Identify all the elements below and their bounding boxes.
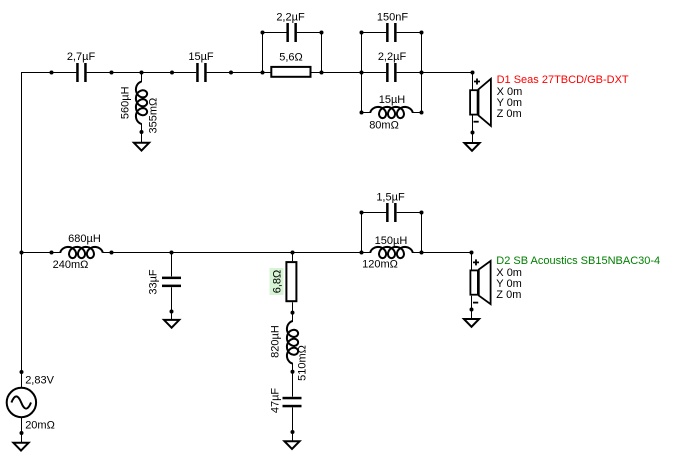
wire group2 left riser [361, 33, 363, 113]
svg-text:355mΩ: 355mΩ [148, 98, 160, 134]
node n21 [110, 251, 114, 255]
resistor R11 6,8Ω [270, 262, 297, 301]
svg-text:47µF: 47µF [270, 388, 282, 414]
wire group3 left riser [361, 213, 363, 253]
node n25 [420, 251, 424, 255]
node n27 [360, 211, 364, 215]
svg-text:D1 Seas 27TBCD/GB-DXT: D1 Seas 27TBCD/GB-DXT [497, 74, 629, 86]
wire group2 top branch right [397, 32, 422, 34]
node n28 [420, 211, 424, 215]
inductor L8 15µH [369, 94, 413, 132]
wire woofer drop top [471, 253, 473, 270]
svg-text:Z 0m: Z 0m [496, 289, 521, 301]
svg-text:2,2µF: 2,2µF [276, 12, 305, 24]
wire group1 top branch left [262, 32, 287, 34]
wire group2 right riser [421, 33, 423, 113]
node n15 [360, 111, 364, 115]
node n13 [360, 31, 364, 35]
svg-text:15µF: 15µF [188, 51, 214, 63]
wire 47uF to ground [292, 407, 294, 441]
svg-text:5,6Ω: 5,6Ω [279, 52, 303, 64]
node n20 [50, 251, 54, 255]
node n30 [291, 311, 295, 315]
capacitor C6 150nF [377, 12, 408, 43]
svg-text:510mΩ: 510mΩ [296, 345, 308, 381]
capacitor C14 1,5µF [376, 192, 405, 223]
wire group2 bottom branch left [361, 112, 371, 114]
capacitor C3 15µF [188, 51, 214, 82]
svg-text:240mΩ: 240mΩ [53, 259, 89, 271]
node n31 [291, 370, 295, 374]
node n32 [291, 430, 295, 434]
wire source bottom lead [21, 417, 23, 443]
svg-text:15µH: 15µH [379, 94, 406, 106]
inductor L12 820µH [270, 321, 309, 381]
svg-text:1,5µF: 1,5µF [376, 192, 405, 204]
svg-text:80mΩ: 80mΩ [369, 120, 399, 132]
wire Rpad chain top [292, 253, 294, 262]
wire group1 right riser [321, 33, 323, 73]
capacitor C13 47µF [270, 388, 302, 414]
label D2 SB Acoustics SB15NBAC30-4 [496, 255, 660, 301]
wire group1 left riser [262, 33, 264, 73]
speaker D2 woofer [470, 259, 490, 304]
node n18 [471, 131, 475, 135]
node n33 [470, 308, 474, 312]
wire bottom net segment B [102, 252, 371, 254]
ground G5 (47µF branch) [284, 441, 299, 449]
wire Rpad to coil [292, 302, 294, 322]
svg-text:120mΩ: 120mΩ [362, 259, 398, 271]
node n10 [471, 71, 475, 75]
label D1 Seas 27TBCD/GB-DXT [497, 74, 629, 120]
inductor L2 560µH [120, 82, 160, 134]
node n5 [229, 71, 233, 75]
wire 33uF branch bottom [171, 287, 173, 320]
svg-text:560µH: 560µH [120, 86, 132, 119]
node n22 [170, 251, 174, 255]
node n26 [470, 251, 474, 255]
wire tweeter drop bottom [472, 116, 474, 143]
wire tweeter drop top [472, 73, 474, 90]
ground G6 (source) [13, 443, 28, 451]
node n16 [420, 111, 424, 115]
svg-text:2,2µF: 2,2µF [378, 51, 407, 63]
ground G1 (560µH shunt) [134, 143, 149, 151]
wire bottom net segment C [412, 252, 472, 254]
svg-text:Z 0m: Z 0m [497, 108, 522, 120]
node n3 [140, 71, 144, 75]
wire group2 top branch left [361, 32, 386, 34]
node n2 [110, 71, 114, 75]
ground G3 (33µF shunt) [164, 320, 179, 328]
node n19 [20, 251, 24, 255]
node n12 [320, 31, 324, 35]
speaker D1 tweeter [470, 79, 491, 126]
node n24 [360, 251, 364, 255]
node n4 [170, 71, 174, 75]
wire bottom net segment A [21, 252, 61, 254]
wire top net segment D [397, 72, 473, 74]
svg-text:2,83V: 2,83V [25, 375, 54, 387]
capacitor C1 2,7µF [67, 51, 96, 82]
capacitor C5 2,2µF [276, 12, 305, 43]
svg-text:150µH: 150µH [375, 235, 408, 247]
wire left rail vertical [21, 73, 23, 388]
wire top net segment B [87, 72, 197, 74]
node n14 [420, 31, 424, 35]
node n11 [261, 31, 265, 35]
inductor L9 680µH [53, 233, 103, 271]
svg-text:820µH: 820µH [270, 325, 282, 358]
ground G4 (woofer) [464, 319, 479, 327]
wire top net segment C [207, 72, 387, 74]
svg-text:680µH: 680µH [68, 233, 101, 245]
node n17 [140, 130, 144, 134]
svg-text:20mΩ: 20mΩ [25, 420, 55, 432]
svg-text:2,7µF: 2,7µF [67, 51, 96, 63]
capacitor C7 2,2µF [378, 51, 407, 82]
svg-text:6,8Ω: 6,8Ω [272, 270, 284, 294]
node n34 [20, 370, 24, 374]
resistor R4 5,6Ω [271, 52, 310, 77]
node n29 [170, 310, 174, 314]
wire group2 bottom branch right [412, 112, 422, 114]
wire top net segment A [21, 72, 76, 74]
svg-text:D2 SB Acoustics SB15NBAC30-4: D2 SB Acoustics SB15NBAC30-4 [496, 255, 660, 267]
wire group1 top branch right [297, 32, 322, 34]
inductor L15 150µH [362, 235, 413, 271]
ground G2 (tweeter) [464, 143, 479, 151]
wire group3 top branch right [397, 212, 422, 214]
node n23 [291, 251, 295, 255]
svg-text:33µF: 33µF [148, 269, 160, 295]
wire 33uF branch top [171, 253, 173, 277]
wire group3 right riser [421, 213, 423, 253]
node n6 [261, 71, 265, 75]
node n35 [20, 431, 24, 435]
node n1 [50, 71, 54, 75]
wire shunt L branch bottom [141, 124, 143, 143]
voltage source V1 2,83V 20mΩ [7, 375, 55, 432]
capacitor C10 33µF [148, 269, 182, 295]
svg-text:150nF: 150nF [377, 12, 408, 24]
wire woofer drop bottom [471, 296, 473, 320]
node n9 [420, 71, 424, 75]
node n7 [320, 71, 324, 75]
node n8 [360, 71, 364, 75]
wire group3 top branch left [361, 212, 387, 214]
wire shunt L branch top [141, 73, 143, 83]
wire coil to 47uF [292, 363, 294, 397]
